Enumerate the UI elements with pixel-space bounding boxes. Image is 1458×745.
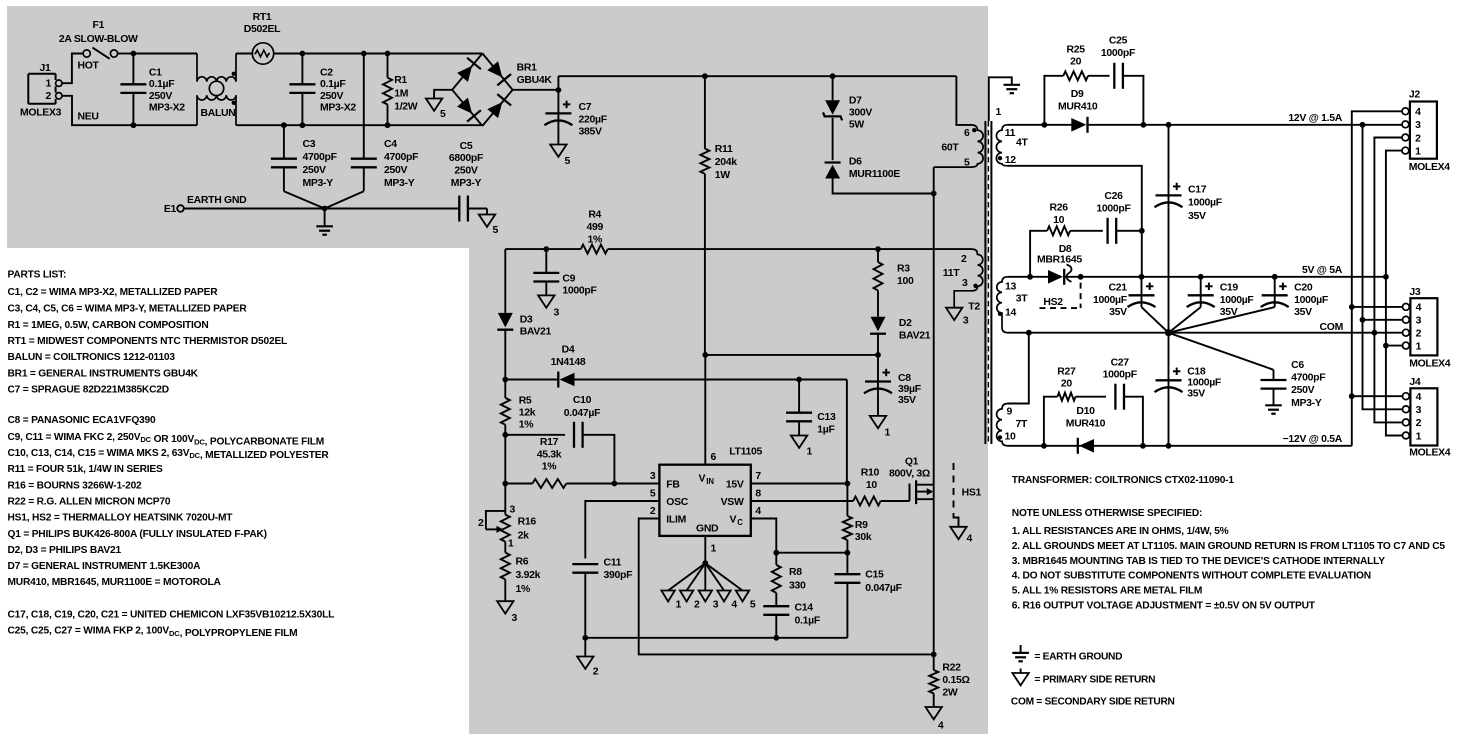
svg-text:0.1µF: 0.1µF (320, 79, 345, 90)
primary return 5 at C5 (479, 209, 499, 237)
pin 6 VIN (705, 355, 716, 465)
resistor R1 1M 1/2W (383, 51, 418, 128)
svg-text:R9: R9 (855, 520, 868, 531)
diode D6 MUR1100E (825, 157, 901, 180)
svg-text:1000µF: 1000µF (1220, 295, 1254, 306)
svg-text:R3: R3 (897, 264, 910, 275)
wire NEU from J1 pin 2 (62, 96, 133, 125)
svg-text:4: 4 (731, 600, 737, 611)
wire 15V pin to R9 (751, 483, 847, 485)
svg-text:3: 3 (650, 471, 656, 482)
svg-text:1N4148: 1N4148 (551, 357, 586, 368)
svg-text:12V @ 1.5A: 12V @ 1.5A (1288, 113, 1342, 124)
node C19 top junction (1198, 274, 1204, 280)
capacitor C5 6800pF 250V MP3-Y (449, 141, 487, 222)
svg-text:C2: C2 (320, 68, 333, 79)
svg-text:EARTH GND: EARTH GND (187, 195, 247, 206)
svg-text:1%: 1% (542, 462, 557, 473)
svg-text:C15: C15 (865, 570, 884, 581)
svg-text:HS2: HS2 (1043, 297, 1063, 308)
svg-text:2: 2 (694, 600, 700, 611)
wire HOT from J1 pin 1 (62, 54, 100, 84)
node C11 ground junction (582, 635, 588, 641)
wire C1 to balun top (133, 53, 197, 55)
svg-text:7T: 7T (1016, 419, 1029, 430)
svg-text:3: 3 (554, 308, 560, 319)
wire R4 line left segment (505, 248, 581, 250)
wire C1 to balun bottom (133, 124, 197, 126)
svg-text:5: 5 (750, 600, 756, 611)
svg-text:250V: 250V (320, 91, 344, 102)
resistor R4 499 1% (581, 210, 608, 254)
svg-text:6: 6 (964, 128, 970, 139)
svg-text:PARTS LIST:: PARTS LIST: (8, 270, 67, 281)
svg-text:OSC: OSC (666, 497, 688, 508)
node R9 top junction (845, 481, 851, 487)
svg-text:3. MBR1645 MOUNTING TAB IS TIE: 3. MBR1645 MOUNTING TAB IS TIED TO THE D… (1012, 556, 1385, 567)
svg-text:5: 5 (565, 156, 571, 167)
svg-text:3: 3 (510, 504, 516, 515)
wire 5V rail to J feed (1064, 276, 1386, 278)
svg-text:C: C (737, 518, 743, 527)
svg-text:R11: R11 (715, 144, 733, 155)
node 7T branch junction (1026, 330, 1032, 336)
svg-text:MP3-Y: MP3-Y (303, 178, 334, 189)
primary return 2 below C11 (577, 638, 599, 678)
svg-text:3: 3 (962, 278, 968, 289)
node R11 top (702, 73, 708, 79)
svg-text:IN: IN (706, 477, 714, 486)
svg-text:4: 4 (1416, 392, 1422, 403)
svg-text:35V: 35V (1187, 389, 1205, 400)
transformer primary 60T winding (934, 125, 983, 169)
wire VC node to R9 node (776, 552, 847, 554)
svg-text:1%: 1% (519, 420, 534, 431)
thermistor RT1 D502EL (244, 12, 281, 64)
parts list text block (8, 270, 335, 639)
node C13 junction (796, 377, 802, 383)
svg-text:204k: 204k (715, 157, 738, 168)
svg-text:R27: R27 (1057, 366, 1076, 377)
node C18 bottom junction (1166, 443, 1172, 449)
connector J1 MOLEX3 (20, 63, 62, 118)
connector J2 MOLEX4 (1402, 90, 1450, 174)
node 5V J feed junction (1383, 274, 1389, 280)
snubber C26 1000pF (1096, 191, 1141, 244)
capacitor C8 39uF 35V (864, 355, 921, 416)
svg-text:4: 4 (755, 506, 761, 517)
svg-text:10: 10 (1053, 215, 1065, 226)
svg-text:0.15Ω: 0.15Ω (942, 675, 969, 686)
transformer core (985, 121, 991, 444)
wire 5V rail winding to D8 (1008, 276, 1050, 278)
svg-text:D7: D7 (849, 95, 862, 106)
svg-text:5V @ 5A: 5V @ 5A (1302, 265, 1343, 276)
svg-text:MP3-Y: MP3-Y (1291, 398, 1322, 409)
svg-text:C13: C13 (817, 412, 836, 423)
svg-text:1: 1 (1416, 341, 1422, 352)
node D6 drain junction (931, 191, 937, 197)
svg-text:10: 10 (866, 480, 878, 491)
svg-text:D3: D3 (520, 314, 533, 325)
primary return 1 below C8 (870, 416, 891, 439)
svg-text:20: 20 (1070, 57, 1082, 68)
svg-text:MUR1100E: MUR1100E (849, 169, 900, 180)
terminal E1 EARTH GND (164, 195, 247, 215)
connector J3 MOLEX4 (1403, 287, 1451, 370)
svg-text:R26: R26 (1049, 203, 1068, 214)
wire shield pin 1 to earth ground (989, 77, 1012, 121)
capacitor C3 4700pF 250V MP3-Y (271, 122, 337, 208)
svg-text:R4: R4 (588, 210, 601, 221)
heatsink HS2 (1040, 283, 1081, 309)
svg-text:30k: 30k (855, 532, 872, 543)
svg-text:C4: C4 (384, 139, 397, 150)
svg-text:9: 9 (1007, 407, 1013, 418)
wire R5 to FB node (504, 425, 506, 484)
svg-text:MP3-X2: MP3-X2 (149, 103, 185, 114)
node C10 FB junction (612, 481, 618, 487)
svg-text:R22 = R.G. ALLEN MICRON MCP70: R22 = R.G. ALLEN MICRON MCP70 (8, 497, 171, 508)
node C27 right junction (1140, 443, 1146, 449)
svg-text:J1: J1 (39, 63, 51, 74)
svg-text:C6: C6 (1291, 360, 1304, 371)
node D4 left junction (502, 377, 508, 383)
svg-text:C9: C9 (562, 273, 575, 284)
transformer primary 11T winding (943, 249, 983, 308)
diode D8 MBR1645 (1037, 244, 1082, 285)
svg-text:Q1: Q1 (905, 456, 919, 467)
capacitor C21 1000uF 35V (1093, 277, 1169, 333)
wire ILIM to sense rail (639, 519, 934, 655)
svg-text:1: 1 (885, 428, 891, 439)
primary return 3 at C9 (538, 295, 559, 318)
node snubber left junction (1042, 122, 1048, 128)
svg-text:13: 13 (1005, 282, 1017, 293)
node C7 junction (556, 87, 562, 93)
svg-text:1M: 1M (394, 88, 408, 99)
svg-text:C14: C14 (795, 602, 814, 613)
svg-text:3: 3 (713, 600, 719, 611)
svg-text:499: 499 (586, 222, 603, 233)
diode D2 BAV21 (870, 317, 931, 342)
node FB left junction (502, 481, 508, 487)
svg-text:4700pF: 4700pF (1291, 373, 1325, 384)
wire fuse to C1 (118, 53, 134, 55)
svg-text:2: 2 (961, 254, 967, 265)
svg-text:GND: GND (696, 524, 719, 535)
svg-text:C3: C3 (303, 139, 316, 150)
primary return 3 below 11T T2 (946, 302, 980, 327)
svg-text:1000µF: 1000µF (1093, 295, 1127, 306)
svg-text:3: 3 (1416, 405, 1422, 416)
svg-text:4. DO NOT SUBSTITUTE COMPONENT: 4. DO NOT SUBSTITUTE COMPONENTS WITHOUT … (1012, 571, 1371, 582)
svg-text:C7 = SPRAGUE 82D221M385KC2D: C7 = SPRAGUE 82D221M385KC2D (8, 385, 169, 396)
svg-text:1: 1 (1416, 431, 1422, 442)
wire ground rail (585, 637, 847, 639)
svg-text:R16 = BOURNS 3266W-1-202: R16 = BOURNS 3266W-1-202 (8, 480, 143, 491)
svg-text:BALUN: BALUN (201, 108, 236, 119)
svg-text:BAV21: BAV21 (520, 327, 552, 338)
svg-text:5: 5 (650, 489, 656, 500)
svg-text:2: 2 (1416, 329, 1422, 340)
svg-text:5W: 5W (849, 119, 865, 130)
svg-text:GBU4K: GBU4K (517, 75, 553, 86)
svg-text:250V: 250V (454, 166, 478, 177)
svg-text:C25: C25 (1109, 36, 1128, 47)
svg-text:15V: 15V (726, 480, 744, 491)
svg-text:NOTE UNLESS OTHERWISE SPECIFIE: NOTE UNLESS OTHERWISE SPECIFIED: (1012, 508, 1202, 519)
wire COM rail (1008, 332, 1403, 334)
svg-text:RT1 = MIDWEST COMPONENTS NTC T: RT1 = MIDWEST COMPONENTS NTC THERMISTOR … (8, 336, 288, 347)
svg-text:11: 11 (1005, 128, 1016, 139)
svg-text:= PRIMARY SIDE RETURN: = PRIMARY SIDE RETURN (1034, 675, 1155, 686)
pin 1 GND (705, 536, 716, 563)
resistor R10 10 (751, 468, 910, 506)
svg-text:800V, 3Ω: 800V, 3Ω (889, 469, 930, 480)
wire 7T pin 9 branch (1008, 333, 1029, 404)
capacitor C6 4700pF 250V MP3-Y (1169, 333, 1326, 414)
diode D4 1N4148 (551, 345, 586, 388)
svg-text:10: 10 (1005, 432, 1017, 443)
wire drain source line (933, 167, 935, 654)
node R26 left junction (1027, 274, 1033, 280)
wire pin12 vertical to 5V rail (1141, 231, 1143, 277)
node R3 top junction (875, 246, 881, 252)
svg-text:ILIM: ILIM (666, 515, 686, 526)
svg-text:20: 20 (1061, 379, 1073, 390)
resistor R3 100 (874, 249, 915, 317)
svg-text:1. ALL RESISTANCES ARE IN OHMS: 1. ALL RESISTANCES ARE IN OHMS, 1/4W, 5% (1012, 526, 1229, 537)
capacitor C11 390pF (572, 558, 632, 638)
svg-text:D6: D6 (849, 157, 862, 168)
svg-text:D2: D2 (899, 318, 912, 329)
svg-text:D2, D3 = PHILIPS BAV21: D2, D3 = PHILIPS BAV21 (8, 545, 122, 556)
svg-text:BALUN = COILTRONICS 1212-01103: BALUN = COILTRONICS 1212-01103 (8, 352, 176, 363)
svg-text:MUR410: MUR410 (1058, 101, 1098, 112)
svg-text:1%: 1% (587, 234, 602, 245)
svg-text:3: 3 (1415, 120, 1421, 131)
svg-text:6: 6 (711, 452, 717, 463)
wire D3 to D4 node (504, 330, 506, 380)
svg-text:2: 2 (593, 667, 599, 678)
wire R4 line right segment (608, 248, 972, 250)
wire D4 line corner down (846, 380, 848, 484)
balun COILTRONICS 1212-01103 (197, 54, 236, 126)
svg-text:MUR410: MUR410 (1066, 419, 1106, 430)
notes text block (1012, 475, 1446, 612)
wire 5V feed vertical (1386, 151, 1403, 436)
svg-text:250V: 250V (303, 165, 327, 176)
diode D10 MUR410 (1066, 406, 1106, 454)
node C17 top junction (1166, 122, 1172, 128)
svg-text:C7: C7 (579, 102, 592, 113)
svg-text:35V: 35V (1188, 211, 1206, 222)
svg-text:D10: D10 (1076, 406, 1095, 417)
svg-text:4: 4 (938, 721, 944, 732)
svg-text:MOLEX3: MOLEX3 (20, 107, 62, 118)
svg-text:D502EL: D502EL (244, 24, 281, 35)
svg-text:35V: 35V (1294, 307, 1312, 318)
capacitor C13 1uF (786, 380, 836, 436)
svg-text:2W: 2W (942, 688, 958, 699)
svg-text:C11: C11 (604, 558, 622, 569)
capacitor C17 1000uF 35V (1155, 125, 1222, 333)
diode D9 MUR410 (1058, 89, 1098, 133)
svg-text:1: 1 (1415, 146, 1421, 157)
svg-text:0.1µF: 0.1µF (149, 79, 174, 90)
svg-text:1W: 1W (715, 170, 731, 181)
capacitor C2 0.1uF 250V MP3-X2 (289, 51, 356, 128)
node J3 pin 1 junction (1383, 343, 1389, 349)
svg-text:MP3-X2: MP3-X2 (320, 103, 356, 114)
svg-text:4: 4 (967, 534, 973, 545)
wire balun to RT1 (236, 53, 252, 55)
svg-text:VSW: VSW (721, 497, 744, 508)
capacitor C19 1000uF 35V (1169, 277, 1254, 333)
node J3 pin 4 junction (1349, 304, 1355, 310)
wire rail to 60T pin 6 (956, 76, 971, 125)
svg-text:C17, C18, C19, C20, C21 = UNIT: C17, C18, C19, C20, C21 = UNITED CHEMICO… (8, 610, 335, 621)
svg-text:45.3k: 45.3k (537, 449, 562, 460)
svg-text:6. R16 OUTPUT VOLTAGE ADJUSTME: 6. R16 OUTPUT VOLTAGE ADJUSTMENT = ±0.5V… (1012, 601, 1316, 612)
node C14 ground junction (773, 635, 779, 641)
node C26 right junction (1139, 228, 1145, 234)
svg-text:C18: C18 (1187, 366, 1206, 377)
svg-text:C27: C27 (1111, 357, 1130, 368)
snubber R27 20 (1044, 366, 1106, 445)
svg-text:V: V (699, 474, 706, 485)
svg-text:5: 5 (493, 225, 499, 236)
wire J4 pin 4 feed (1352, 395, 1403, 397)
svg-text:1/2W: 1/2W (394, 102, 418, 113)
node earth junction (322, 206, 328, 212)
snubber R25 20 (1044, 44, 1109, 125)
svg-text:−12V @ 0.5A: −12V @ 0.5A (1283, 434, 1343, 445)
node COM J feed junction (1372, 330, 1378, 336)
potentiometer R16 2k (478, 484, 536, 550)
primary return 5 at bridge minus (426, 90, 452, 120)
node 12V J feed junction (1360, 122, 1366, 128)
svg-text:4700pF: 4700pF (303, 152, 337, 163)
svg-text:C20: C20 (1294, 283, 1313, 294)
svg-text:0.047µF: 0.047µF (865, 583, 901, 594)
svg-text:R1 = 1MEG, 0.5W, CARBON COMPOS: R1 = 1MEG, 0.5W, CARBON COMPOSITION (8, 320, 209, 331)
svg-text:MP3-Y: MP3-Y (384, 178, 415, 189)
node D7 top (830, 73, 836, 79)
capacitor C1 0.1uF 250V MP3-X2 (120, 51, 185, 128)
svg-text:RT1: RT1 (253, 12, 272, 23)
svg-text:C8 = PANASONIC ECA1VFQ390: C8 = PANASONIC ECA1VFQ390 (8, 415, 156, 426)
legend earth ground symbol (1012, 645, 1122, 663)
svg-text:R25: R25 (1066, 44, 1085, 55)
node GND fan junction (702, 560, 708, 566)
svg-text:D8: D8 (1059, 244, 1072, 255)
wire J3 pin 4 feed (1352, 306, 1403, 308)
transistor Q1 BUK426-800A (889, 456, 934, 504)
node R22 junction (931, 652, 937, 658)
node R27 left junction (1041, 443, 1047, 449)
snubber R26 10 (1030, 203, 1103, 277)
svg-text:FB: FB (666, 480, 680, 491)
op-amp U1 LT1105 regulator box (659, 447, 762, 536)
wire RT1 to bridge top corner (274, 53, 483, 55)
wire earth gnd line (184, 208, 460, 210)
wire D6 to drain line (833, 179, 934, 194)
node C21 top junction (1139, 274, 1145, 280)
svg-text:4: 4 (1416, 303, 1422, 314)
wire D7 to D6 (832, 118, 834, 160)
wire 4T pin12 to 5V node (1008, 166, 1142, 231)
svg-text:Q1 = PHILIPS BUK426-800A (FULL: Q1 = PHILIPS BUK426-800A (FULLY INSULATE… (8, 529, 267, 540)
svg-text:220µF: 220µF (579, 114, 607, 125)
svg-text:R17: R17 (540, 437, 559, 448)
svg-text:385V: 385V (579, 127, 603, 138)
svg-text:3.92k: 3.92k (516, 570, 541, 581)
bridge rectifier BR1 GBU4K (452, 53, 552, 126)
svg-text:HS1: HS1 (962, 488, 982, 499)
wire D2 to C8 (877, 334, 879, 355)
svg-text:COM: COM (1320, 322, 1343, 333)
node C20 top junction (1272, 274, 1278, 280)
svg-text:3T: 3T (1016, 294, 1029, 305)
svg-text:1: 1 (711, 544, 717, 555)
capacitor C7 220uF 385V (544, 90, 606, 145)
capacitor C14 0.1uF (763, 593, 820, 638)
svg-text:D4: D4 (562, 345, 575, 356)
svg-text:COM = SECONDARY SIDE RETURN: COM = SECONDARY SIDE RETURN (1011, 697, 1175, 708)
svg-text:V: V (730, 515, 737, 526)
svg-text:39µF: 39µF (898, 384, 921, 395)
svg-text:D9: D9 (1071, 89, 1084, 100)
wire J3 pin 1 feed (1386, 345, 1403, 347)
wire COM feed vertical (1374, 138, 1402, 423)
svg-text:1µF: 1µF (817, 425, 834, 436)
svg-text:C19: C19 (1220, 283, 1239, 294)
resistor R5 12k 1% (501, 380, 536, 431)
capacitor C18 1000uF 35V (1155, 333, 1222, 446)
svg-text:35V: 35V (898, 395, 916, 406)
svg-text:0.047µF: 0.047µF (564, 408, 600, 419)
connector J4 MOLEX4 (1403, 377, 1451, 458)
svg-text:C21: C21 (1109, 283, 1128, 294)
svg-text:MP3-Y: MP3-Y (451, 178, 482, 189)
svg-text:= EARTH GROUND: = EARTH GROUND (1034, 652, 1122, 663)
snubber C27 1000pF (1103, 357, 1143, 445)
svg-text:MOLEX4: MOLEX4 (1409, 359, 1451, 370)
svg-text:250V: 250V (384, 165, 408, 176)
svg-text:R1: R1 (394, 75, 407, 86)
node HS2 junction (1078, 274, 1084, 280)
node J4 pin 4 junction (1349, 393, 1355, 399)
wire OSC to C11 (585, 501, 659, 559)
svg-text:1: 1 (508, 539, 514, 550)
svg-text:MOLEX4: MOLEX4 (1409, 162, 1451, 173)
svg-text:C10: C10 (573, 395, 592, 406)
wire VC to R8 node (751, 519, 777, 553)
svg-text:C3, C4, C5, C6 = WIMA MP3-Y, M: C3, C4, C5, C6 = WIMA MP3-Y, METALLIZED … (8, 304, 248, 315)
wire left vertical to D3 (504, 249, 506, 313)
svg-text:J2: J2 (1409, 90, 1421, 101)
primary return 4 below R22 (926, 707, 944, 732)
wire rectified rail (558, 75, 956, 77)
svg-text:4700pF: 4700pF (384, 152, 418, 163)
svg-text:T2: T2 (968, 302, 980, 313)
primary return 3 below R6 (497, 589, 517, 624)
svg-text:C1: C1 (149, 68, 162, 79)
svg-text:R22: R22 (942, 663, 961, 674)
wire bridge output to C7 node (513, 89, 559, 91)
